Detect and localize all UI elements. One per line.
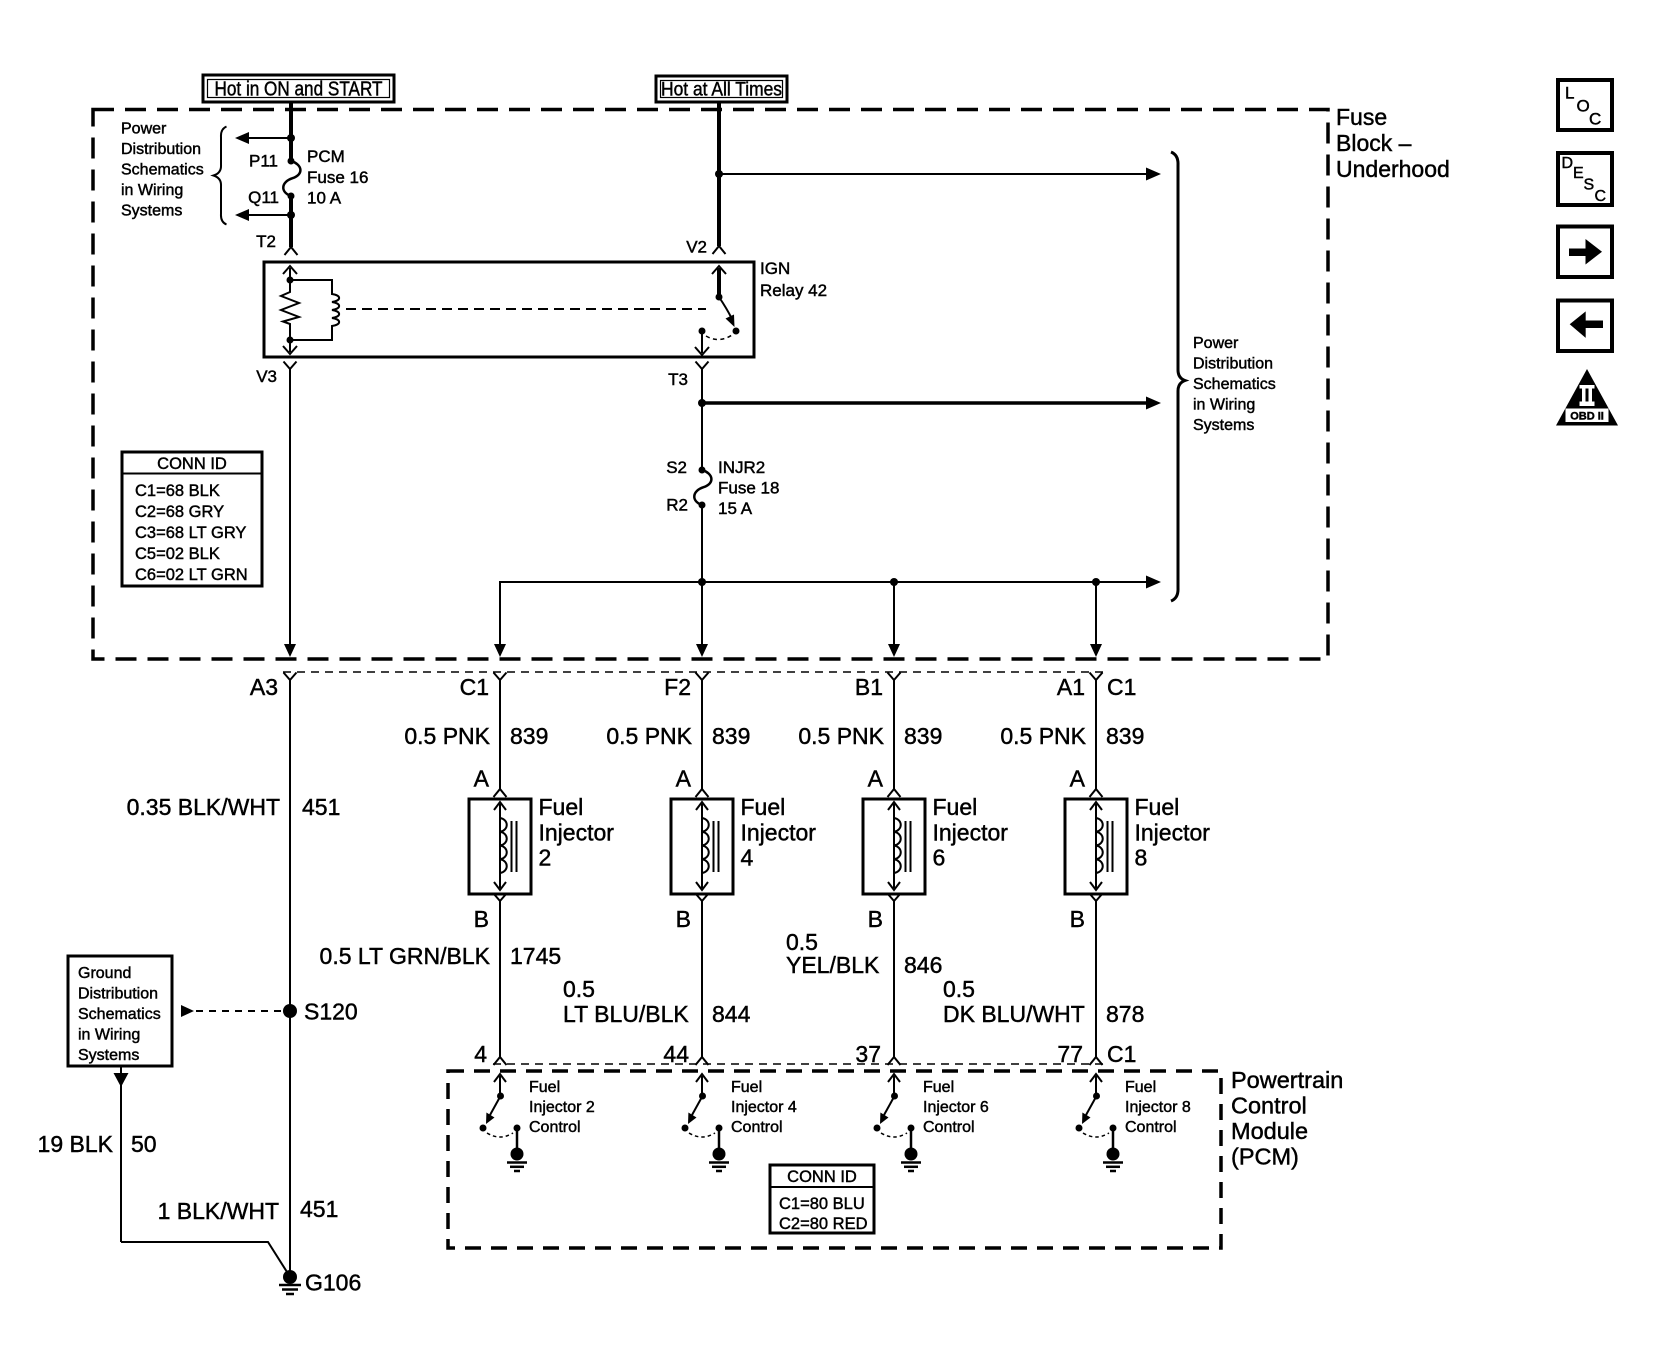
- svg-text:D: D: [1562, 155, 1574, 172]
- wire: 0.5 PNK 839 feed to injector (x=500): [404, 680, 548, 789]
- relay switch output pin arrow (T3 side, down): [695, 331, 709, 355]
- svg-text:G106: G106: [305, 1270, 361, 1296]
- svg-text:P11: P11: [249, 152, 278, 171]
- connector pin A of fuel injector 8: [1070, 766, 1103, 798]
- svg-text:A: A: [676, 766, 692, 792]
- PCM connector pin 37: [855, 1041, 900, 1067]
- svg-text:Underhood: Underhood: [1336, 156, 1450, 182]
- wire: 0.5 PNK 839 feed to injector (x=1096): [1000, 680, 1144, 789]
- connector pin V3: [256, 362, 296, 387]
- connector pin T2: [256, 232, 297, 255]
- fuel injector 8 (solenoid): [1065, 794, 1210, 894]
- svg-text:B: B: [868, 906, 883, 932]
- svg-text:4: 4: [474, 1041, 487, 1067]
- svg-text:Hot at All Times: Hot at All Times: [661, 80, 782, 101]
- svg-text:CONN ID: CONN ID: [787, 1168, 857, 1186]
- label: Fuel Injector 8 Control: [1125, 1079, 1191, 1136]
- svg-text:Injector: Injector: [1135, 820, 1211, 846]
- svg-text:C: C: [1595, 188, 1607, 205]
- connector pin A3: [250, 673, 297, 701]
- wire: 0.35 BLK/WHT 451 from A3 to S120: [127, 680, 341, 1272]
- dashed actuation link from coil to switch: [346, 308, 706, 310]
- CONN ID table (fuse block): [122, 452, 262, 586]
- svg-text:Schematics: Schematics: [121, 162, 204, 179]
- relay switch pin arrow (V2 side, up): [712, 266, 726, 297]
- relay box: IGN Relay 42: [264, 259, 827, 357]
- fuel injector 6 (solenoid): [863, 794, 1008, 894]
- wire: drop to connector C1 (injector 2): [494, 644, 506, 657]
- svg-text:B1: B1: [855, 674, 883, 700]
- arrow: to other power distribution circuits (lower): [235, 209, 289, 221]
- svg-text:Injector 4: Injector 4: [731, 1099, 797, 1116]
- svg-text:44: 44: [663, 1041, 689, 1067]
- svg-text:IGN: IGN: [760, 259, 790, 278]
- icon: DESC button: [1558, 153, 1612, 205]
- ground inside PCM (injector 8 driver): [1103, 1148, 1123, 1172]
- wire: 0.5 YEL/BLK 846 injector 6 control: [786, 901, 942, 1058]
- node: bus junction at fuse 18: [698, 578, 706, 586]
- svg-text:DK BLU/WHT: DK BLU/WHT: [943, 1001, 1085, 1027]
- svg-text:Fuel: Fuel: [539, 794, 584, 820]
- svg-text:in Wiring: in Wiring: [78, 1027, 140, 1044]
- svg-text:Schematics: Schematics: [78, 1006, 161, 1023]
- node: coil top: [287, 277, 294, 284]
- svg-text:C1=68 BLK: C1=68 BLK: [135, 482, 220, 500]
- node: junction to other circuits (lower): [287, 211, 295, 219]
- wire: ground lead from note box: [114, 1067, 129, 1242]
- svg-text:Ground: Ground: [78, 965, 131, 982]
- svg-text:0.5 PNK: 0.5 PNK: [798, 723, 884, 749]
- relay switch blade: [719, 297, 735, 327]
- node: switch pivot: [716, 294, 723, 301]
- svg-text:PCM: PCM: [307, 147, 345, 166]
- svg-text:S120: S120: [304, 999, 358, 1025]
- svg-text:C1: C1: [460, 674, 489, 700]
- svg-text:878: 878: [1106, 1001, 1144, 1027]
- label: Fuel Injector 6 Control: [923, 1079, 989, 1136]
- label: Fuel Injector 4 Control: [731, 1079, 797, 1136]
- fuel injector 2 (solenoid): [469, 794, 614, 894]
- wire: Hot at All Times feed: [717, 102, 721, 246]
- svg-text:A3: A3: [250, 674, 278, 700]
- svg-text:E: E: [1573, 165, 1584, 182]
- arrow: battery feed to power distribution schematics: [719, 168, 1161, 181]
- svg-text:S: S: [1584, 177, 1595, 194]
- svg-text:Fuel: Fuel: [1125, 1079, 1156, 1096]
- PCM connector pin 44: [663, 1041, 708, 1067]
- node: coil bottom: [287, 337, 294, 344]
- svg-text:L: L: [1565, 84, 1574, 103]
- connector pin B of fuel injector 2: [474, 894, 507, 933]
- svg-text:Injector 8: Injector 8: [1125, 1099, 1191, 1116]
- CONN ID table (PCM): [770, 1165, 874, 1233]
- svg-text:Powertrain: Powertrain: [1231, 1067, 1343, 1093]
- svg-text:451: 451: [302, 794, 340, 820]
- svg-text:(PCM): (PCM): [1231, 1144, 1299, 1170]
- svg-text:4: 4: [741, 845, 754, 871]
- svg-text:T2: T2: [256, 232, 276, 251]
- hot at All Times power box: [656, 76, 787, 102]
- wire: ignition feed from Hot in ON and START: [289, 102, 293, 161]
- svg-text:Fuse 18: Fuse 18: [718, 479, 779, 498]
- svg-text:6: 6: [933, 845, 946, 871]
- relay coil pin arrow (V3 side, down): [283, 340, 297, 354]
- connector pin B of fuel injector 4: [676, 894, 709, 933]
- ground G106: [279, 1270, 361, 1296]
- svg-text:LT BLU/BLK: LT BLU/BLK: [563, 1001, 689, 1027]
- svg-text:T3: T3: [668, 370, 688, 389]
- icon: back arrow button: [1558, 301, 1612, 352]
- svg-text:INJR2: INJR2: [718, 458, 765, 477]
- connector pin B1: [855, 673, 901, 701]
- svg-text:Systems: Systems: [121, 203, 182, 220]
- PCM driver switch: fuel injector 2 control: [480, 1074, 521, 1150]
- svg-text:Injector: Injector: [741, 820, 817, 846]
- wire: 0.5 DK BLU/WHT 878 injector 8 control: [943, 901, 1144, 1058]
- svg-text:8: 8: [1135, 845, 1148, 871]
- svg-text:A: A: [474, 766, 490, 792]
- svg-text:0.5: 0.5: [943, 976, 975, 1002]
- PCM driver switch: fuel injector 8 control: [1076, 1074, 1117, 1150]
- svg-text:Fuel: Fuel: [529, 1079, 560, 1096]
- svg-text:V2: V2: [686, 238, 707, 257]
- note: power distribution schematics (right): [1193, 335, 1276, 434]
- connector pin A1: [1057, 673, 1103, 701]
- svg-text:846: 846: [904, 952, 942, 978]
- svg-text:Relay 42: Relay 42: [760, 281, 827, 300]
- wire: drop to connector F2 (injector 4): [696, 582, 708, 657]
- svg-text:Systems: Systems: [1193, 417, 1254, 434]
- svg-text:Power: Power: [1193, 335, 1239, 352]
- svg-text:1745: 1745: [510, 943, 561, 969]
- node: junction to other circuits (upper): [287, 134, 295, 142]
- svg-text:O: O: [1577, 97, 1590, 116]
- svg-text:C1=80 BLU: C1=80 BLU: [779, 1195, 865, 1213]
- svg-text:A1: A1: [1057, 674, 1085, 700]
- svg-text:S2: S2: [666, 458, 687, 477]
- wire: drop to connector A1/C1 (injector 8): [1090, 582, 1102, 657]
- node: switch blade rest contact: [733, 328, 740, 335]
- relay coil (parallel winding): [290, 280, 339, 340]
- ground inside PCM (injector 2 driver): [507, 1148, 527, 1172]
- svg-text:77: 77: [1057, 1041, 1083, 1067]
- svg-text:Systems: Systems: [78, 1047, 139, 1064]
- svg-text:Distribution: Distribution: [121, 141, 201, 158]
- svg-text:0.5 LT GRN/BLK: 0.5 LT GRN/BLK: [320, 943, 491, 969]
- svg-text:0.35 BLK/WHT: 0.35 BLK/WHT: [127, 794, 280, 820]
- svg-text:19 BLK: 19 BLK: [38, 1131, 114, 1157]
- label: Powertrain Control Module (PCM): [1231, 1067, 1343, 1170]
- wire: 0.5 LT BLU/BLK 844 injector 4 control: [563, 901, 751, 1058]
- svg-text:Distribution: Distribution: [1193, 356, 1273, 373]
- svg-text:Control: Control: [1231, 1093, 1307, 1119]
- arrow: from ground distribution note to S120: [181, 1005, 283, 1017]
- hot in ON and START power box: [203, 75, 394, 102]
- arrow: to other power distribution circuits (upper): [235, 132, 289, 144]
- svg-text:0.5 PNK: 0.5 PNK: [404, 723, 490, 749]
- svg-text:C1: C1: [1107, 1041, 1136, 1067]
- brace for power distribution note: [214, 127, 227, 225]
- PCM connector pin 4: [474, 1041, 506, 1067]
- dashed travel arc of switch blade: [706, 335, 732, 340]
- relay coil pin arrow (T2 side, up): [283, 266, 297, 281]
- wire: T3 ignition feed down to fuse 18: [701, 369, 703, 403]
- svg-text:839: 839: [904, 723, 942, 749]
- svg-text:451: 451: [300, 1196, 338, 1222]
- node: junction ignition feed: [698, 399, 706, 407]
- arrow: A3 wire exits fuse block: [284, 644, 296, 657]
- brace: circuits continue in power distribution schematics: [1171, 152, 1185, 601]
- svg-text:CONN ID: CONN ID: [157, 455, 227, 473]
- svg-text:C5=02 BLK: C5=02 BLK: [135, 545, 220, 563]
- wire label: 1 BLK/WHT 451: [158, 1196, 339, 1224]
- svg-text:839: 839: [510, 723, 548, 749]
- fuse F18: INJR2 Fuse 18 15 A: [694, 458, 779, 518]
- label: Fuel Injector 2 Control: [529, 1079, 595, 1136]
- wire: to ground G106: [121, 1242, 287, 1272]
- svg-text:Q11: Q11: [248, 188, 279, 207]
- svg-text:50: 50: [131, 1131, 157, 1157]
- thin dashed connector face line (PCM): [493, 1063, 1104, 1065]
- svg-text:Fuel: Fuel: [923, 1079, 954, 1096]
- svg-text:Control: Control: [923, 1119, 975, 1136]
- connector pin T3: [668, 362, 708, 390]
- fuse block underhood dashed boundary: [93, 110, 1328, 660]
- svg-text:Control: Control: [731, 1119, 783, 1136]
- svg-text:839: 839: [712, 723, 750, 749]
- connector pin B of fuel injector 6: [868, 894, 901, 933]
- svg-text:0.5 PNK: 0.5 PNK: [606, 723, 692, 749]
- svg-text:Power: Power: [121, 121, 167, 138]
- connector pin F2: [664, 673, 708, 701]
- connector pin A of fuel injector 4: [676, 766, 709, 798]
- node S120 (splice): [283, 999, 358, 1025]
- svg-text:B: B: [474, 906, 489, 932]
- connector pin A of fuel injector 6: [868, 766, 901, 798]
- svg-text:A: A: [868, 766, 884, 792]
- svg-text:Distribution: Distribution: [78, 986, 158, 1003]
- svg-text:839: 839: [1106, 723, 1144, 749]
- node: bus junction injector 6: [890, 578, 898, 586]
- label: Fuse Block - Underhood: [1336, 104, 1450, 182]
- icon: OBD II symbol: [1556, 369, 1618, 426]
- node P11: [288, 158, 295, 165]
- arrow: ignition feed to power distribution schematics: [702, 397, 1161, 410]
- powertrain control module dashed boundary: [448, 1071, 1221, 1248]
- wire: fuse 16 output to T2: [289, 196, 293, 247]
- node Q11: [288, 193, 295, 200]
- PCM connector pin 77: [1057, 1041, 1102, 1067]
- svg-text:V3: V3: [256, 367, 277, 386]
- svg-text:OBD II: OBD II: [1570, 411, 1604, 423]
- wire: 0.5 PNK 839 feed to injector (x=702): [606, 680, 750, 789]
- svg-text:B: B: [676, 906, 691, 932]
- fuse F16: PCM Fuse 16 10 A: [283, 147, 368, 208]
- svg-text:in Wiring: in Wiring: [121, 182, 183, 199]
- PCM driver switch: fuel injector 6 control: [874, 1074, 915, 1150]
- svg-text:Hot in ON and START: Hot in ON and START: [215, 79, 383, 101]
- ground inside PCM (injector 4 driver): [709, 1148, 729, 1172]
- svg-text:C2=68 GRY: C2=68 GRY: [135, 503, 224, 521]
- svg-text:A: A: [1070, 766, 1086, 792]
- svg-text:B: B: [1070, 906, 1085, 932]
- node: junction to power distribution (battery feed): [715, 170, 723, 178]
- svg-text:Injector: Injector: [933, 820, 1009, 846]
- svg-text:Fuel: Fuel: [731, 1079, 762, 1096]
- node: bus junction injector 8: [1092, 578, 1100, 586]
- wire: drop to connector B1 (injector 6): [888, 582, 900, 657]
- note box: ground distribution schematics: [68, 956, 172, 1066]
- svg-text:C3=68 LT GRY: C3=68 LT GRY: [135, 524, 246, 542]
- svg-text:0.5: 0.5: [563, 976, 595, 1002]
- node R2: [666, 496, 705, 515]
- wire: 0.5 LT GRN/BLK 1745 injector 2 control: [320, 901, 562, 1058]
- svg-text:37: 37: [855, 1041, 881, 1067]
- wire label: 19 BLK 50: [38, 1131, 157, 1157]
- svg-text:C: C: [1589, 110, 1601, 129]
- wire: fused injector feed: [701, 505, 703, 582]
- icon: LOC button: [1558, 80, 1612, 130]
- relay winding resistance (zigzag): [281, 280, 299, 340]
- svg-text:R2: R2: [666, 496, 688, 515]
- svg-text:15 A: 15 A: [718, 499, 753, 518]
- connector pin A of fuel injector 2: [474, 766, 507, 798]
- svg-text:Injector 2: Injector 2: [529, 1099, 595, 1116]
- wire: V3 to connector A3: [289, 369, 291, 645]
- connector pin V2: [686, 238, 725, 257]
- svg-text:YEL/BLK: YEL/BLK: [786, 952, 880, 978]
- svg-text:Control: Control: [1125, 1119, 1177, 1136]
- svg-text:C2=80 RED: C2=80 RED: [779, 1215, 868, 1233]
- svg-text:Injector: Injector: [539, 820, 615, 846]
- thin dashed connector face line (fuse block): [283, 671, 1104, 673]
- svg-text:C6=02 LT GRN: C6=02 LT GRN: [135, 566, 248, 584]
- svg-text:Module: Module: [1231, 1118, 1308, 1144]
- svg-text:Fuel: Fuel: [933, 794, 978, 820]
- fuel injector 4 (solenoid): [671, 794, 816, 894]
- wire: injector feed distribution bus: [500, 576, 1161, 646]
- svg-text:0.5 PNK: 0.5 PNK: [1000, 723, 1086, 749]
- connector pin C1: [460, 673, 507, 701]
- svg-text:Schematics: Schematics: [1193, 376, 1276, 393]
- svg-text:Fuel: Fuel: [1135, 794, 1180, 820]
- node S2: [666, 458, 705, 477]
- svg-text:Injector 6: Injector 6: [923, 1099, 989, 1116]
- node: switch output contact: [699, 328, 706, 335]
- svg-text:in Wiring: in Wiring: [1193, 397, 1255, 414]
- svg-text:2: 2: [539, 845, 552, 871]
- svg-text:10 A: 10 A: [307, 189, 342, 208]
- icon: next arrow button: [1558, 227, 1612, 278]
- note: power distribution schematics (top left): [121, 121, 204, 220]
- connector pin B of fuel injector 8: [1070, 894, 1103, 933]
- svg-text:844: 844: [712, 1001, 751, 1027]
- wire: 0.5 PNK 839 feed to injector (x=894): [798, 680, 942, 789]
- svg-text:Fuse 16: Fuse 16: [307, 168, 368, 187]
- svg-text:Fuse: Fuse: [1336, 104, 1387, 130]
- PCM driver switch: fuel injector 4 control: [682, 1074, 723, 1150]
- svg-text:Control: Control: [529, 1119, 581, 1136]
- svg-text:C1: C1: [1107, 674, 1136, 700]
- svg-text:F2: F2: [664, 674, 691, 700]
- svg-text:Fuel: Fuel: [741, 794, 786, 820]
- svg-text:Block –: Block –: [1336, 130, 1412, 156]
- ground inside PCM (injector 6 driver): [901, 1148, 921, 1172]
- svg-text:1 BLK/WHT: 1 BLK/WHT: [158, 1198, 279, 1224]
